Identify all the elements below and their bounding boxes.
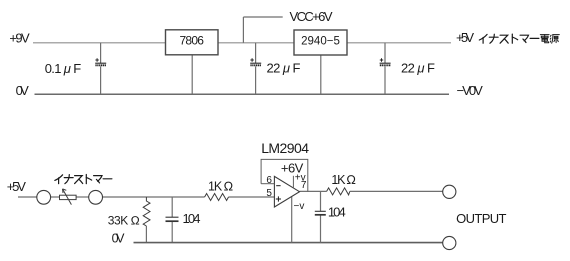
svg-text:33K Ω: 33K Ω [108,213,140,227]
wire between jack J1 and sensor [51,196,60,198]
capacitor C5 104 [315,211,326,215]
svg-text:2940−5: 2940−5 [301,35,340,47]
wire main input run [103,196,205,198]
wire VCC branch vertical [242,17,244,43]
jack J2 circle [89,190,103,204]
capacitor C3 22uF symbol [380,58,391,65]
svg-text:0V: 0V [112,232,126,246]
svg-text:0.1 μ F: 0.1 μ F [45,61,82,76]
svg-text:6: 6 [266,175,272,186]
wire rail between 7806 and 2940-5 [218,42,294,44]
resistor R2 1K (horizontal zigzag) [205,194,229,201]
svg-text:22 μ F: 22 μ F [267,60,301,75]
wire 104 C5 upper lead [320,191,322,211]
op-amp minus sign [276,185,280,187]
svg-text:0V: 0V [16,83,30,98]
svg-text:VCC+6V: VCC+6V [290,9,333,24]
capacitor C2 22uF symbol [250,58,261,65]
wire 104 C4 lower lead [171,222,173,243]
wire -v lead to ground [291,196,293,242]
op-amp plus sign [276,196,281,201]
wire ground rail bottom [134,242,443,244]
svg-text:−V0V: −V0V [457,83,484,98]
wire capacitor C3 lead [384,43,386,63]
wire 0V bottom rail [35,93,450,95]
wire 104 C5 lower lead [320,215,322,242]
svg-text:104: 104 [183,211,201,226]
wire 104 C4 upper lead [171,197,173,217]
svg-text:5: 5 [266,188,272,199]
resistor R1 33K (vertical zigzag) [143,197,150,226]
wire 2940-5 ground lead [320,55,322,94]
label inastomer (katakana) [55,175,112,184]
svg-text:22 μ F: 22 μ F [401,60,435,75]
wire capacitor C1 lead [100,43,102,63]
op-amp feedback loop wire [261,159,308,191]
regulator U2 2940-5 [294,30,347,55]
svg-text:LM2904: LM2904 [261,140,309,156]
wire VCC branch horizontal [243,16,282,18]
wire capacitor C2 lead [255,43,257,63]
wire 33K R1 lower lead [145,226,147,243]
svg-text:7806: 7806 [179,33,204,47]
node +5V inastomer-dengen label [456,30,559,45]
svg-text:+5V: +5V [456,30,474,45]
capacitor C4 104 [166,217,179,221]
svg-text:−v: −v [294,201,305,212]
wire rail right of 2940-5 to +5V label [347,42,451,44]
wire +5V input lead [18,196,37,198]
svg-text:1K Ω: 1K Ω [208,179,233,193]
pin +v stub [292,176,294,188]
svg-text:7: 7 [301,180,307,191]
svg-text:OUTPUT: OUTPUT [456,211,506,226]
capacitor C1 0.1uF symbol [95,58,106,65]
wire +9V rail left segment [33,42,166,44]
svg-text:+6V: +6V [281,160,304,175]
op-amp U3 LM2904 triangle [274,176,299,207]
wire pin6 lead [261,183,274,185]
sensor arrow [63,189,72,205]
svg-text:+5V: +5V [7,179,27,194]
wire op-amp output to 1K R3 [300,190,327,192]
svg-text:104: 104 [328,204,346,219]
svg-text:+9V: +9V [9,30,30,45]
jack J3 output circle top [443,185,456,198]
wire between sensor and jack J2 [76,196,88,198]
wire 7806 ground lead [191,55,193,95]
jack J4 output circle bottom [443,236,456,249]
wire 1K R3 to output jack [350,190,443,192]
wire 1K R2 to op-amp pin5 [229,196,275,198]
resistor R3 1K (horizontal zigzag) [327,188,350,195]
regulator U1 7806 [166,30,219,55]
sensor (inastomer) body [60,195,77,199]
jack J1 circle [37,190,51,204]
svg-text:1K Ω: 1K Ω [331,173,356,187]
